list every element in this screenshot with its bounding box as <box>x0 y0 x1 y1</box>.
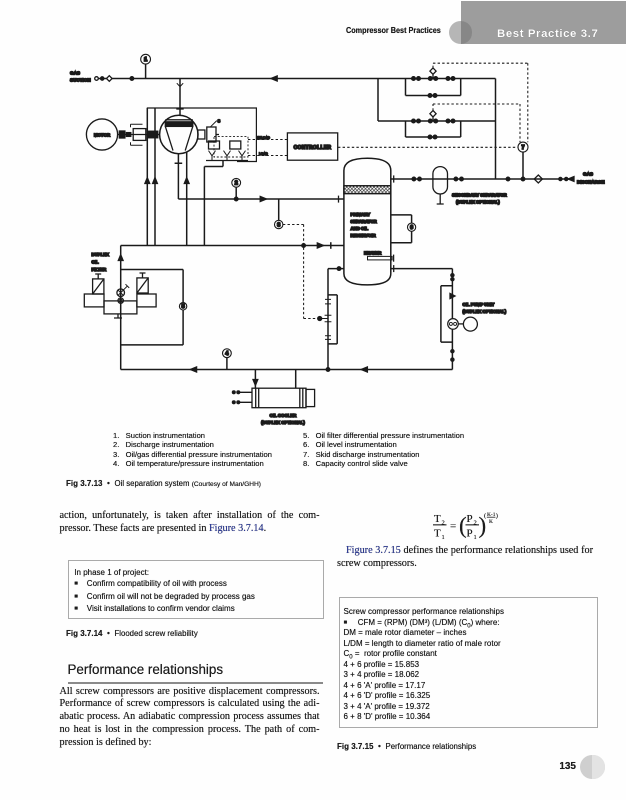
wire bypass loop 1 <box>406 79 461 96</box>
valve discharge pair b <box>454 177 458 181</box>
svg-text:SEPARATOR: SEPARATOR <box>351 219 378 224</box>
wire oil pump bypass loop <box>441 286 453 342</box>
wire level valve bypass <box>328 295 337 344</box>
control valve CV2 <box>428 119 432 123</box>
oil pump P1 <box>448 319 459 330</box>
wire bypass loop 2 <box>406 121 461 137</box>
svg-text:SUCTION: SUCTION <box>70 78 91 83</box>
motor M1 <box>86 119 117 150</box>
demister pad <box>344 186 391 194</box>
solenoid manifold <box>206 160 248 162</box>
valve discharge pair a <box>412 177 416 181</box>
box fig 3.7.14 <box>68 560 324 619</box>
controller box <box>287 133 337 160</box>
wire gas discharge line <box>391 178 570 180</box>
svg-text:OIL: OIL <box>92 260 100 265</box>
solenoid vent Y b <box>224 151 231 161</box>
filter housing left <box>93 279 104 294</box>
instrument circle 2 discharge <box>232 178 241 187</box>
primary separator vessel <box>344 158 391 285</box>
flow arrow filter riser up <box>118 255 123 261</box>
left column paragraph 1 <box>60 510 320 536</box>
node skid transmitter junction <box>521 177 524 180</box>
flange oil pump nozzle <box>393 265 395 272</box>
svg-text:GAS: GAS <box>70 71 80 76</box>
caption fig 3.7.14 <box>66 629 198 638</box>
flange gas outlet nozzle <box>393 175 395 182</box>
solenoid valve block <box>209 141 220 149</box>
flow arrow gas discharge <box>568 177 574 182</box>
coupling shaft <box>118 134 160 136</box>
wire filter dp loop <box>121 270 183 345</box>
valve gas discharge dots <box>559 177 562 180</box>
wire oil injection line a <box>146 108 148 246</box>
wire suction drop to compressor <box>179 79 181 116</box>
oil cooler shell <box>252 388 306 408</box>
instrument circle 7 skid discharge <box>518 142 528 152</box>
wire slide valve oil line <box>204 161 223 246</box>
wire bypass station 2 line <box>378 120 496 122</box>
header small text <box>346 26 441 35</box>
transfer valve <box>117 289 125 297</box>
right column paragraph <box>337 545 593 571</box>
svg-text:(DUPLEX OPTIONAL): (DUPLEX OPTIONAL) <box>456 200 500 205</box>
compressor housing box <box>147 108 257 162</box>
legend list column 1 <box>113 431 272 469</box>
page corner circle left half <box>580 755 605 780</box>
node suction gauge junction <box>130 77 133 80</box>
cooling water stubs <box>240 392 252 402</box>
svg-text:2: 2 <box>235 181 238 187</box>
legend list column 2 <box>303 431 464 469</box>
wire compressor discharge to separator <box>175 153 344 199</box>
filter manifold <box>84 294 104 307</box>
svg-text:8: 8 <box>218 119 221 124</box>
wire separator oil downcomer <box>328 269 344 370</box>
flanges pump discharge <box>451 350 454 353</box>
caption fig 3.7.15 <box>337 742 476 751</box>
svg-text:(: ( <box>484 513 486 520</box>
svg-text:1: 1 <box>144 57 147 63</box>
wire dashed control valve 2 signal <box>433 104 520 142</box>
svg-text:T: T <box>434 528 441 540</box>
svg-text:2: 2 <box>474 520 477 527</box>
instrument circle 6 oil level <box>408 223 416 231</box>
equation <box>425 505 525 547</box>
wire oil injection line b <box>154 108 156 246</box>
wire dashed level control signal <box>283 225 316 319</box>
flow arrow bottom line left <box>191 367 197 372</box>
svg-text:PRIMARY: PRIMARY <box>351 212 371 217</box>
node discharge header dot <box>506 177 509 180</box>
valve station1 block right <box>446 77 450 81</box>
wire separator to oil pump <box>391 269 453 370</box>
valve station2 block right <box>446 119 450 123</box>
header bar title <box>497 28 598 40</box>
header gray bar <box>461 1 626 44</box>
flanges pump suction <box>451 274 454 277</box>
check valve oil pump <box>450 293 455 298</box>
solenoid vent Y a <box>209 151 216 161</box>
svg-text:(DUPLEX OPTIONAL): (DUPLEX OPTIONAL) <box>261 420 305 425</box>
svg-text:4: 4 <box>225 351 228 357</box>
svg-text:LOAD: LOAD <box>259 152 268 156</box>
header circle left half <box>449 21 472 44</box>
instrument circle 4 oil temp/press <box>223 349 232 358</box>
control valve CV1 <box>428 77 432 81</box>
svg-text:CONTROLLER: CONTROLLER <box>294 145 332 151</box>
svg-text:OIL COOLER: OIL COOLER <box>270 413 298 418</box>
svg-text:FILTER: FILTER <box>92 267 108 272</box>
solenoid vent Y c <box>239 151 246 161</box>
instrument circle 5 filter dp <box>179 303 186 310</box>
flow arrow cooler inlet down <box>253 380 258 386</box>
svg-text:GAS: GAS <box>583 171 593 176</box>
svg-text:P: P <box>467 528 473 540</box>
svg-text:2: 2 <box>442 520 445 527</box>
box fig 3.7.15 <box>339 597 598 728</box>
wire dashed unload signal <box>248 139 287 141</box>
wire oil injection line c <box>186 152 188 246</box>
wire oil header to separator <box>121 245 344 247</box>
svg-text:P: P <box>467 513 473 525</box>
flow arrow oil header <box>317 243 323 248</box>
node bottom line junction <box>326 368 329 371</box>
svg-text:DISCHARGE: DISCHARGE <box>577 179 605 184</box>
wire level gauge loop <box>391 215 412 243</box>
flow arrow oil injection c <box>184 178 189 184</box>
valve gas suction block <box>95 77 99 81</box>
wire oil filter riser <box>120 246 122 370</box>
svg-text:K: K <box>489 519 493 525</box>
wire dashed controller to skid transmitter <box>338 146 518 148</box>
valve station1 block left <box>412 77 416 81</box>
compressor C1 <box>160 115 198 153</box>
svg-text:HEATER: HEATER <box>364 251 382 256</box>
wire drop to bypass station 2 <box>377 79 379 122</box>
valve gas discharge diamond <box>534 175 542 183</box>
wire bottom oil line <box>121 369 453 371</box>
svg-text:5: 5 <box>182 304 185 310</box>
wire cooler outlet drop <box>295 370 297 389</box>
page number <box>542 761 576 772</box>
wire suction header <box>95 78 496 80</box>
svg-text:SECONDARY SEPARATOR: SECONDARY SEPARATOR <box>452 192 508 197</box>
svg-text:7: 7 <box>522 145 525 151</box>
instrument circle 1 suction <box>141 54 151 64</box>
svg-text:1: 1 <box>442 534 445 541</box>
secondary separator <box>433 167 448 194</box>
left column paragraph 2 <box>60 686 320 751</box>
node discharge gauge junction <box>235 197 238 200</box>
svg-text:AND OIL: AND OIL <box>351 226 369 231</box>
svg-text:6: 6 <box>410 225 413 231</box>
instrument circle 3 oil/gas dp <box>275 220 283 228</box>
flow arrow discharge to separator <box>260 197 266 202</box>
svg-text:DUPLEX: DUPLEX <box>92 252 110 257</box>
wire dashed control valve 1 signal <box>433 63 528 142</box>
flange tick oil header at vessel <box>330 242 332 249</box>
svg-text:T: T <box>434 513 441 525</box>
filter housing right <box>137 278 148 293</box>
flow arrow bottom line mid <box>361 367 367 372</box>
flange discharge nozzle <box>338 196 340 203</box>
strainer on suction drop <box>177 83 183 90</box>
svg-text:=: = <box>450 521 456 533</box>
valve station2 block left <box>412 119 416 123</box>
pump motor <box>463 317 477 331</box>
caption fig 3.7.13 <box>66 479 261 488</box>
valve bypass2 <box>428 135 432 139</box>
node level signal crossing <box>302 244 305 247</box>
svg-text:OIL PUMP UNIT: OIL PUMP UNIT <box>463 302 495 307</box>
wire bypass right drop <box>495 79 497 180</box>
svg-text:UNLOAD: UNLOAD <box>257 136 271 140</box>
flow arrow oil injection a <box>145 178 150 184</box>
wire dashed load signal <box>248 155 287 157</box>
node oil downcomer nozzle dot <box>337 267 340 270</box>
flange suction at compressor <box>176 108 183 110</box>
header circle right half <box>461 21 473 44</box>
valve bypass1 <box>428 94 432 98</box>
svg-text:): ) <box>496 513 498 520</box>
page corner circle right half <box>592 755 604 780</box>
svg-text:1: 1 <box>474 534 477 541</box>
wire cooler inlet drop <box>254 370 256 389</box>
svg-text:MOTOR: MOTOR <box>94 132 111 137</box>
heading performance relationships <box>68 662 224 677</box>
svg-text:3: 3 <box>277 222 280 228</box>
flow arrow suction line <box>271 76 277 81</box>
level control valve on downcomer <box>325 299 331 339</box>
flow arrow oil injection b <box>153 178 158 184</box>
svg-text:(DUPLEX OPTIONAL): (DUPLEX OPTIONAL) <box>463 309 507 314</box>
svg-text:RESERVOIR: RESERVOIR <box>351 233 377 238</box>
capacity control slide valve <box>198 130 205 139</box>
